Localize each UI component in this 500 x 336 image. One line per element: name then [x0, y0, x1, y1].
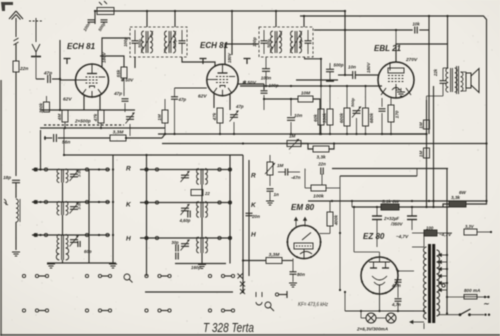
switch contact	[85, 168, 88, 171]
tube ECH81-1 envelope	[76, 64, 109, 97]
node	[164, 133, 166, 135]
resistor 600k	[344, 108, 350, 126]
wire line down	[248, 160, 250, 276]
trimmer capacitor 47p	[230, 115, 238, 118]
svg-text:10M: 10M	[301, 91, 311, 97]
wire	[263, 30, 265, 41]
svg-text:180V: 180V	[366, 62, 371, 73]
tube EBL 21 electrodes	[381, 62, 411, 98]
wire	[15, 183, 17, 198]
wire	[442, 83, 444, 96]
node	[353, 206, 355, 208]
wire screen feed drop	[344, 11, 346, 75]
capacitor	[54, 134, 57, 142]
antenna 1	[9, 11, 23, 37]
wire	[196, 202, 198, 203]
transformer tap arrow	[439, 268, 448, 271]
shield ground bar left of V2	[200, 59, 207, 65]
mains switch	[459, 313, 462, 316]
resistor	[191, 190, 203, 196]
IF coil OT	[446, 68, 457, 92]
switch contact	[44, 168, 47, 171]
node	[59, 78, 61, 80]
wire	[351, 201, 353, 207]
svg-text:600k: 600k	[339, 112, 344, 123]
wire	[307, 43, 309, 54]
wire	[447, 296, 464, 298]
node	[355, 133, 357, 135]
wire	[382, 133, 427, 135]
capacitor	[321, 168, 323, 175]
capacitor 18p	[12, 180, 20, 182]
svg-text:30p: 30p	[171, 240, 179, 245]
svg-text:47k: 47k	[93, 113, 98, 122]
ground coil bank 2	[198, 265, 206, 269]
trimmer capacitor	[70, 174, 78, 177]
node	[425, 206, 427, 208]
node	[303, 15, 305, 17]
wire switch link	[39, 275, 46, 277]
wire	[288, 171, 300, 173]
node	[428, 200, 430, 202]
IFT tuning arrow	[290, 31, 302, 53]
ground EBL21	[397, 92, 405, 96]
wire	[360, 311, 362, 318]
svg-text:10k: 10k	[412, 22, 420, 27]
node	[63, 154, 65, 156]
wire	[264, 98, 298, 100]
svg-text:270V: 270V	[405, 57, 418, 63]
wire cathode pin	[83, 95, 85, 110]
svg-text:100k: 100k	[313, 194, 324, 200]
node	[174, 10, 176, 12]
switch contact	[228, 236, 231, 239]
wire	[164, 99, 166, 110]
capacitor 500p	[101, 20, 108, 22]
svg-text:22k: 22k	[433, 68, 438, 77]
node	[397, 310, 399, 312]
svg-text:55k: 55k	[116, 69, 121, 77]
node	[446, 254, 448, 256]
svg-text:/350V: /350V	[390, 222, 404, 227]
wire	[321, 174, 323, 185]
svg-text:2×6,3V/300mA: 2×6,3V/300mA	[356, 327, 388, 332]
svg-text:✻ 50V: ✻ 50V	[242, 80, 257, 86]
switch contact	[275, 293, 278, 296]
node	[290, 98, 292, 100]
node	[432, 200, 434, 202]
trimmer arrow	[70, 203, 79, 214]
wire	[438, 314, 459, 316]
wire band section rail	[32, 201, 110, 203]
resistor 10M	[298, 96, 313, 102]
node	[319, 133, 321, 135]
node	[446, 15, 448, 17]
IF coil osc R	[197, 169, 208, 185]
svg-text:500p: 500p	[350, 97, 355, 107]
wire bank2 right rail	[229, 155, 231, 264]
wire	[243, 260, 266, 262]
wire	[279, 294, 287, 296]
wire	[282, 260, 293, 262]
output transformer core	[457, 66, 459, 94]
svg-text:22: 22	[204, 191, 210, 196]
resistor 5,1k 6W	[381, 204, 399, 210]
switch contact	[85, 200, 88, 203]
trimmer capacitor	[181, 208, 189, 211]
switch contact	[158, 309, 161, 312]
wire	[129, 124, 131, 136]
switch contact	[221, 309, 224, 312]
wire grid lead left	[60, 79, 76, 81]
switch contact	[44, 233, 47, 236]
wire	[301, 144, 313, 150]
node	[242, 259, 244, 261]
transformer tap arrow	[439, 275, 448, 278]
wire	[329, 226, 331, 234]
wire switch link	[161, 275, 168, 277]
wire antenna input riser	[59, 40, 61, 110]
speaker	[466, 73, 471, 88]
svg-text:4M: 4M	[57, 114, 62, 122]
node	[485, 142, 487, 144]
IF coil IFT1b	[165, 31, 176, 53]
EM80 ray arrow	[304, 218, 307, 227]
wire divider rail	[426, 100, 428, 207]
svg-text:47p: 47p	[43, 71, 52, 77]
transformer tap arrow	[439, 254, 448, 257]
switch contact	[155, 236, 158, 239]
wire	[62, 260, 64, 263]
wire AGC rail	[40, 127, 165, 129]
wire band section rail	[140, 202, 232, 204]
switch contact	[108, 274, 111, 277]
wire	[354, 251, 380, 253]
transformer tap arrow	[439, 261, 448, 264]
svg-text:1M: 1M	[277, 163, 284, 168]
node	[98, 168, 100, 170]
switch contact	[145, 274, 148, 277]
node	[145, 237, 147, 239]
svg-text:47p: 47p	[178, 97, 187, 102]
node	[112, 168, 114, 170]
wire	[63, 128, 65, 155]
capacitor	[262, 69, 270, 72]
IF coil ant K	[57, 202, 68, 216]
resistor 680k	[363, 108, 369, 126]
wire oscillator rail	[64, 154, 243, 156]
capacitor	[176, 253, 178, 260]
svg-text:6W: 6W	[459, 190, 467, 195]
switch contact	[208, 274, 211, 277]
wire jog	[443, 204, 449, 207]
node	[339, 232, 341, 234]
trimmer arrow	[181, 171, 190, 182]
node	[100, 127, 102, 129]
switch contact	[106, 233, 109, 236]
trimmer capacitor	[70, 207, 78, 210]
wire EZ80 heater down	[379, 294, 381, 311]
svg-text:KF= 473,6 kHz: KF= 473,6 kHz	[298, 302, 328, 308]
wire coil chain	[62, 183, 64, 203]
trimmer capacitor	[353, 111, 361, 114]
wire	[313, 99, 320, 134]
wire EM80 anode lead	[320, 233, 331, 235]
wire	[397, 283, 399, 298]
wire IFT1 to V2 grid	[182, 57, 215, 66]
switch terminal dots	[484, 314, 486, 316]
tube EBL 21 envelope	[378, 62, 414, 98]
node	[331, 200, 333, 202]
svg-text:180V: 180V	[227, 52, 232, 63]
wire	[263, 43, 265, 54]
svg-text:47p: 47p	[235, 104, 244, 109]
capacitor	[261, 91, 268, 93]
node	[364, 85, 366, 87]
wire feedback line	[332, 168, 448, 170]
svg-text:1M: 1M	[418, 151, 423, 158]
wire	[307, 30, 309, 41]
svg-text:60p: 60p	[84, 249, 92, 254]
wire switch link	[102, 310, 109, 312]
switch contact	[155, 168, 158, 171]
node	[145, 201, 147, 203]
power transformer primary winding	[424, 247, 427, 319]
coil	[16, 199, 18, 222]
node	[329, 133, 331, 135]
node	[64, 127, 66, 129]
svg-text:ECH 81: ECH 81	[67, 42, 96, 51]
node	[229, 168, 231, 170]
switch contact	[208, 309, 211, 312]
node	[112, 234, 114, 236]
wire AVC bus	[158, 133, 427, 135]
wire	[396, 89, 401, 91]
wire	[265, 71, 267, 86]
switch contact	[45, 274, 48, 277]
node	[112, 201, 114, 203]
wire	[265, 57, 267, 69]
wire	[329, 201, 331, 212]
switch contact	[218, 236, 221, 239]
wire	[329, 72, 331, 80]
capacitor	[326, 69, 334, 71]
svg-text:2×500p: 2×500p	[74, 119, 91, 124]
wire	[346, 126, 348, 134]
node	[390, 133, 392, 135]
switch contact	[168, 309, 171, 312]
jack symbol Q bottom-left	[124, 274, 130, 280]
resistor 4M	[62, 110, 68, 122]
wire	[100, 123, 102, 128]
wire	[346, 86, 348, 108]
wire	[412, 246, 424, 248]
wire coil chain	[201, 253, 203, 264]
switch contact	[34, 233, 37, 236]
node	[98, 201, 100, 203]
wire AF line down	[242, 155, 244, 292]
switch contact	[145, 201, 148, 204]
capacitor	[176, 245, 178, 252]
svg-text:4,7n: 4,7n	[391, 283, 401, 288]
wire B+ rail to EM80	[308, 200, 487, 202]
switch contact	[22, 274, 25, 277]
wire	[390, 98, 392, 105]
node	[44, 137, 46, 139]
wire	[290, 122, 292, 134]
wire	[269, 155, 271, 162]
svg-text:✻ 50V: ✻ 50V	[121, 78, 135, 83]
wire EBL21 anode to OT	[396, 44, 448, 68]
fuse 800mA	[464, 295, 477, 300]
node	[329, 85, 331, 87]
heater arrow	[410, 321, 424, 324]
wire	[123, 78, 125, 96]
resistor 400k	[327, 212, 333, 226]
capacitor	[395, 280, 402, 282]
resistor 170	[388, 105, 394, 122]
node	[290, 98, 292, 100]
wire	[46, 96, 48, 102]
switch terminal arrow	[32, 233, 38, 237]
capacitor 100n	[88, 20, 95, 22]
switch terminal arrow	[32, 168, 38, 172]
svg-text:−4,7V: −4,7V	[396, 234, 409, 239]
switch contact	[145, 309, 148, 312]
switch contact	[231, 274, 234, 277]
node	[164, 133, 166, 135]
pickup symbol	[265, 302, 271, 308]
wire IFT1 gnd	[134, 57, 136, 68]
node	[376, 206, 378, 208]
wire	[338, 74, 353, 76]
wire	[398, 270, 414, 272]
wire	[477, 231, 491, 233]
wire	[329, 86, 331, 109]
node	[344, 291, 346, 293]
IF coil ant R	[57, 169, 68, 183]
wire	[320, 125, 322, 134]
svg-text:500p: 500p	[334, 63, 344, 68]
switch contact	[22, 309, 25, 312]
node	[242, 291, 244, 293]
svg-text:R: R	[126, 166, 131, 173]
capacitor	[395, 299, 402, 301]
wire	[471, 314, 484, 316]
wire V2 pin	[229, 94, 231, 110]
svg-text:22n: 22n	[317, 162, 326, 167]
switch contact	[98, 274, 101, 277]
wire det rail	[240, 85, 382, 87]
svg-text:ECH 81: ECH 81	[200, 41, 229, 50]
wire	[397, 302, 399, 311]
wire bank2 left rail	[146, 155, 148, 276]
tube EZ 80 envelope	[361, 257, 398, 294]
wire	[174, 88, 176, 97]
wire	[344, 292, 346, 311]
wire	[52, 78, 60, 80]
svg-text:62V: 62V	[198, 94, 207, 100]
wire	[305, 187, 311, 189]
node	[395, 29, 397, 31]
svg-text:47p: 47p	[113, 91, 122, 96]
wire stub	[44, 136, 46, 140]
wire antenna 1 down-lead	[15, 44, 17, 61]
wire	[426, 96, 428, 100]
trimmer arrow	[126, 113, 135, 124]
node	[145, 168, 147, 170]
trimmer capacitor	[70, 240, 78, 243]
wire feedback line 2	[340, 175, 417, 177]
wire coil chain	[62, 215, 64, 235]
wire screen riser	[428, 16, 430, 134]
shield ground bar right of V2	[244, 59, 251, 65]
wire bank right rail	[112, 155, 114, 263]
svg-text:47k: 47k	[212, 112, 217, 121]
svg-text:22n: 22n	[19, 66, 28, 72]
wire switch link	[102, 275, 109, 277]
svg-text:EBL 21: EBL 21	[374, 44, 402, 53]
node	[344, 74, 346, 76]
node	[320, 133, 322, 135]
wire switch link	[39, 310, 46, 312]
wire	[326, 187, 340, 189]
wire switch link	[161, 310, 168, 312]
capacitor 4,60p	[188, 211, 190, 218]
IF coil osc H	[197, 237, 208, 253]
node	[344, 29, 346, 31]
svg-text:160p: 160p	[191, 265, 201, 270]
power transformer core	[428, 244, 431, 323]
wire antenna 2 down	[35, 58, 37, 80]
capacitor	[122, 99, 129, 101]
tube EM 80 electrodes	[294, 233, 313, 259]
IF coil ant H	[57, 235, 68, 249]
capacitor IFT primary	[261, 41, 268, 43]
wire switch link	[225, 275, 232, 277]
svg-text:100p: 100p	[252, 37, 257, 47]
node	[39, 168, 41, 170]
resistor 33	[464, 229, 477, 235]
wire tap rail	[446, 255, 448, 313]
wire to EBL21 grid	[355, 74, 378, 76]
trimmer capacitor	[181, 244, 189, 247]
wire	[269, 175, 271, 186]
node	[333, 142, 335, 144]
resistor 1M	[424, 148, 430, 158]
wire AF bus	[162, 143, 487, 145]
node	[229, 201, 231, 203]
node	[219, 133, 221, 135]
wire	[126, 137, 162, 139]
wire	[329, 125, 331, 134]
wire V2 pin	[213, 94, 215, 108]
resistor 3,3k 6W	[449, 201, 466, 207]
wire osc grid to V2	[175, 87, 207, 89]
trimmer arrow	[181, 204, 190, 215]
capacitor	[287, 118, 295, 121]
node	[397, 270, 399, 272]
svg-text:1M: 1M	[418, 122, 423, 129]
wire IFT1 tap	[174, 11, 176, 27]
trimmer arrow	[181, 240, 190, 251]
svg-text:4,7n: 4,7n	[391, 302, 401, 307]
capacitor	[440, 81, 447, 84]
resistor 3,3k	[313, 146, 329, 152]
switch contact	[231, 309, 234, 312]
wire	[196, 169, 198, 170]
resistor 47k	[98, 110, 104, 123]
